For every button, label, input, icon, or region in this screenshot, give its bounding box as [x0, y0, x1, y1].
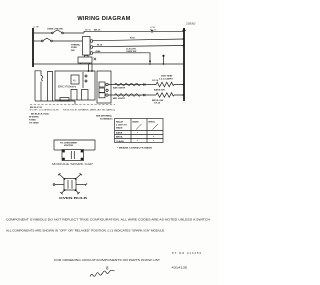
splice X bake	[143, 83, 145, 85]
svg-text:WIRING DIAGRAM: WIRING DIAGRAM	[77, 16, 130, 22]
svg-text:ALL COMPONENTS ARE SHOWN IN "O: ALL COMPONENTS ARE SHOWN IN "OFF" OR "RE…	[6, 228, 165, 232]
svg-text:SCHEMATIC: SCHEMATIC	[100, 117, 113, 120]
wire (top run to N bus)	[84, 30, 151, 32]
svg-text:MADE: MADE	[116, 126, 123, 129]
svg-text:MODULE SPARK GAP: MODULE SPARK GAP	[52, 163, 94, 166]
wire (mid run taps to control)	[88, 64, 90, 71]
svg-text:3.3-3.6 AMPS: 3.3-3.6 AMPS	[159, 77, 173, 80]
svg-text:IGNITOR: IGNITOR	[64, 145, 73, 147]
bulb leads	[59, 174, 64, 178]
wire (lower left run)	[35, 100, 75, 102]
relay terminal 2	[99, 88, 105, 93]
relay board outline	[97, 71, 111, 103]
bus N (right supply line)	[183, 28, 185, 101]
thermostat TOD (box above mid run)	[78, 57, 92, 63]
svg-text:BROIL: BROIL	[116, 137, 123, 139]
svg-text:*: *	[153, 139, 154, 143]
node dots on control top edge	[88, 70, 90, 72]
switch oven light SW	[51, 32, 53, 34]
wire (bake ignitor feed)	[108, 84, 156, 86]
connector plug on top wire	[151, 30, 153, 32]
wire (to terminal block)	[52, 40, 82, 42]
resistor broil ignitor	[156, 93, 184, 98]
table relay contacts	[115, 119, 164, 143]
svg-text:BAKE: BAKE	[133, 120, 140, 123]
svg-text:GY-16: GY-16	[152, 80, 159, 82]
svg-text:L1-BK: L1-BK	[33, 27, 40, 29]
wire (switch to terminal)	[63, 32, 84, 34]
node (bus joint B)	[183, 45, 185, 47]
svg-text:*: *	[137, 139, 138, 143]
door switch (inverted U with blade)	[35, 71, 41, 101]
svg-text:3196363: 3196363	[186, 23, 196, 26]
svg-text:BRL IGNTR: BRL IGNTR	[113, 98, 125, 100]
svg-text:TOP CONSOLE: TOP CONSOLE	[29, 110, 60, 112]
bus L1 (left supply line)	[32, 28, 34, 67]
resistor bake ignitor	[156, 82, 184, 87]
relay terminal 1	[99, 82, 105, 87]
svg-text:+BAL: +BAL	[95, 50, 101, 53]
node (bus joint A)	[183, 38, 185, 40]
spark module box	[62, 150, 84, 161]
control ERC-RG	[55, 71, 95, 100]
svg-text:BAK IGNTR: BAK IGNTR	[113, 87, 126, 90]
svg-text:MODULE SPARK (RELAY BOARD): MODULE SPARK (RELAY BOARD)	[63, 109, 115, 112]
relay terminal 3	[99, 93, 105, 98]
svg-text:2 CNTCTS: 2 CNTCTS	[116, 124, 127, 126]
switch thermal	[41, 40, 43, 42]
node (bus joint bake)	[183, 84, 185, 86]
svg-text:R RED: R RED	[29, 119, 36, 121]
wire (pin1 to N bus)	[93, 39, 184, 41]
svg-text:ERC-RG: ERC-RG	[58, 85, 71, 89]
svg-text:*: *	[137, 131, 138, 135]
svg-text:4314135: 4314135	[172, 266, 188, 270]
svg-text:240V HEAT: 240V HEAT	[161, 75, 173, 78]
svg-text:*: *	[153, 135, 154, 139]
svg-text:FOR ORDERING CIRCUIT/COMPONENT: FOR ORDERING CIRCUIT/COMPONENTS OR PARTS…	[54, 258, 161, 262]
svg-text:CLEAN: CLEAN	[116, 140, 124, 143]
svg-text:OVEN BULB: OVEN BULB	[59, 197, 88, 200]
svg-text:BAKE IGN: BAKE IGN	[154, 89, 165, 92]
svg-text:OVEN LITE SW: OVEN LITE SW	[47, 28, 64, 30]
oven bulb	[64, 179, 76, 191]
terminal pin 3	[90, 52, 93, 55]
svg-text:GY-16: GY-16	[154, 102, 161, 104]
terminal pin 2	[90, 46, 93, 49]
wire (broil ignitor feed)	[108, 94, 156, 96]
svg-text:BROIL: BROIL	[149, 121, 156, 123]
svg-text:PT NO 314459: PT NO 314459	[172, 251, 202, 255]
svg-text:BK BLACK 16GA: BK BLACK 16GA	[31, 112, 49, 115]
svg-text:BAKE: BAKE	[116, 132, 123, 135]
signature mark	[90, 270, 115, 276]
splice X broil	[143, 94, 145, 96]
wire (oven light circuit, from L1)	[33, 32, 52, 34]
tap (drop at 163.5)	[163, 57, 165, 65]
terminal pin 1	[90, 40, 93, 43]
svg-text:R-16: R-16	[130, 37, 136, 39]
wire (spark loop)	[54, 140, 95, 150]
svg-text:TO OVEN BRNR: TO OVEN BRNR	[60, 142, 77, 144]
wire (plug to N bus)	[153, 30, 184, 32]
svg-text:W-16: W-16	[97, 44, 103, 46]
door latch switch (second inverted U)	[48, 72, 53, 102]
wire (second line from L1)	[33, 40, 42, 42]
relay contact 1	[71, 90, 77, 101]
terminal block (plug P1)	[83, 37, 91, 56]
node (drop joints on mid run)	[149, 63, 151, 65]
relay M inside control	[71, 75, 79, 84]
svg-text:P4 P3: P4 P3	[70, 86, 77, 89]
svg-text:* MEANS CONTACTS MADE: * MEANS CONTACTS MADE	[117, 147, 153, 150]
wire (mid run L1 to N)	[33, 63, 184, 65]
node (bus joint broil)	[183, 94, 185, 96]
relay contact 2	[82, 90, 89, 101]
console boundary (dashed)	[30, 104, 115, 106]
svg-text:RD-16: RD-16	[150, 29, 157, 31]
component on lower run	[60, 98, 69, 102]
wire (pin2 to N bus)	[93, 46, 184, 47]
svg-text:RELAY: RELAY	[116, 120, 124, 123]
svg-text:COMPONENT SYMBOLS DO NOT REFLE: COMPONENT SYMBOLS DO NOT REFLECT TRUE CO…	[6, 217, 210, 221]
svg-text:W WHITE: W WHITE	[29, 116, 39, 118]
svg-text:SEE INTERNAL: SEE INTERNAL	[96, 114, 113, 117]
splice X	[94, 58, 96, 60]
bus N top arrow	[182, 28, 186, 32]
svg-text:GY GRAY: GY GRAY	[29, 121, 39, 124]
